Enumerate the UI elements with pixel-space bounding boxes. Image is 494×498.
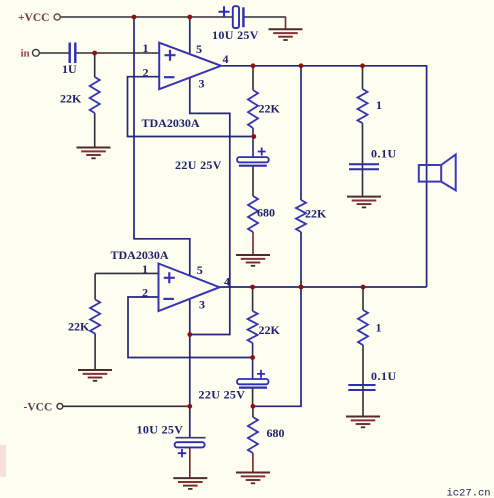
- wire 1 ohm to 0.1U: [362, 123, 364, 196]
- wire 22K R2 to 22U cap: [252, 128, 254, 157]
- wire U1 pin 3 to negative rail: [190, 78, 230, 335]
- wire 22K R7 to ground: [94, 334, 96, 371]
- wire 10U cap to ground: [243, 16, 285, 18]
- capacitor C5 10U 25V bottom: [176, 437, 206, 439]
- svg-text:22K: 22K: [68, 319, 90, 333]
- svg-text:5: 5: [197, 263, 203, 277]
- ground G1 top right: [269, 28, 303, 30]
- svg-text:1: 1: [143, 41, 149, 55]
- node dot out2 fb: [250, 285, 255, 290]
- wire 22K R1 to ground: [94, 113, 96, 148]
- ground G6 below 680 bottom: [236, 472, 270, 474]
- wire U1 output rail to speaker: [221, 66, 427, 287]
- wire +VCC rail: [61, 16, 233, 18]
- ground G4 zobel top: [347, 196, 381, 198]
- terminal -VCC: [57, 403, 63, 409]
- wire zobel1 stub output to 1 ohm: [362, 66, 364, 89]
- svg-text:5: 5: [196, 42, 202, 56]
- wire U2 pin 3 down to 10U cap: [189, 299, 191, 438]
- wire 680 R8 to ground: [252, 453, 254, 473]
- wire 10U bottom cap to ground: [189, 447, 191, 478]
- capacitor C6 0.1U top: [349, 164, 379, 169]
- wire in to 1U cap: [39, 52, 68, 54]
- node dot out1 zobel: [360, 63, 365, 68]
- wire 1 ohm to 0.1U bottom: [362, 345, 364, 417]
- node dot out1 bridge: [299, 63, 304, 68]
- svg-text:ic27.cn: ic27.cn: [447, 488, 491, 498]
- svg-text:22K: 22K: [60, 91, 82, 105]
- node dot cap680 junction bottom: [251, 404, 256, 409]
- svg-text:22K: 22K: [305, 207, 327, 221]
- svg-text:0.1U: 0.1U: [371, 369, 397, 383]
- speaker LS1: [419, 165, 441, 182]
- capacitor C3 22U 25V top: [237, 157, 269, 162]
- wire node to 680 R8: [252, 406, 254, 417]
- svg-text:4: 4: [224, 274, 230, 288]
- ground G7 zobel bottom: [346, 416, 380, 418]
- svg-text:3: 3: [199, 298, 205, 312]
- wire U1 pin 5 stub: [189, 17, 191, 53]
- resistor 1 ohm zobel bottom: [358, 310, 368, 345]
- svg-text:22K: 22K: [259, 102, 281, 116]
- svg-text:TDA2030A: TDA2030A: [111, 248, 169, 262]
- wire 22K R6 to node: [252, 343, 254, 379]
- resistor R6 22K feedback bottom: [248, 311, 258, 343]
- svg-text:1U: 1U: [62, 62, 77, 76]
- wire ground stem top right: [285, 17, 287, 30]
- ground G3 below 680 top: [236, 254, 270, 256]
- svg-text:680: 680: [267, 426, 285, 440]
- node dot input: [92, 51, 97, 56]
- node dot out1 fb: [251, 63, 256, 68]
- resistor R8 680 bottom: [248, 417, 258, 453]
- decorative scan smudge: [0, 445, 6, 477]
- resistor 1 ohm zobel top: [358, 89, 368, 123]
- node dot top rail 1: [132, 15, 137, 20]
- node dot fb junction top: [251, 134, 256, 139]
- svg-text:3: 3: [199, 76, 205, 90]
- node dot fb junction bottom: [250, 355, 255, 360]
- wire 22U cap to 680: [252, 166, 254, 196]
- node dot out2 bridge: [299, 285, 304, 290]
- node dot pin3 junction: [187, 332, 192, 337]
- wire -VCC rail: [63, 405, 190, 407]
- svg-text:in: in: [21, 48, 30, 60]
- node dot top rail 2: [187, 15, 192, 20]
- svg-text:4: 4: [223, 52, 229, 66]
- svg-text:10U 25V: 10U 25V: [137, 422, 184, 436]
- wire bridge 22K from out1: [300, 66, 302, 200]
- node dot out2 zobel: [361, 285, 366, 290]
- svg-text:0.1U: 0.1U: [371, 147, 397, 161]
- wire U1 pin 2 feedback loop: [128, 77, 254, 137]
- svg-text:TDA2030A: TDA2030A: [142, 116, 200, 130]
- svg-text:2: 2: [143, 66, 149, 80]
- svg-text:1: 1: [142, 262, 148, 276]
- wire U2 pin1 to 22K R7: [95, 273, 158, 299]
- terminal in: [33, 49, 40, 56]
- svg-text:22K: 22K: [259, 323, 281, 337]
- wire U2 pin 2 feedback loop: [128, 297, 253, 358]
- ground G2 below R1: [77, 147, 111, 149]
- svg-text:2: 2: [142, 286, 148, 300]
- svg-text:22U 25V: 22U 25V: [175, 158, 222, 172]
- wire bridge 22K to bottom node: [253, 232, 301, 406]
- wire 1U cap to op-amp pin 1: [76, 52, 159, 54]
- capacitor C7 0.1U bottom: [348, 385, 375, 390]
- resistor R1 22K input bias: [90, 77, 100, 113]
- resistor R7 22K bottom bias: [90, 300, 100, 334]
- resistor R5 22K bridge: [296, 200, 306, 232]
- wire U2 output rail: [220, 286, 427, 288]
- ground G8 below 10U bottom: [173, 477, 207, 479]
- resistor R3 680 top: [248, 196, 258, 232]
- svg-text:+VCC: +VCC: [18, 12, 49, 24]
- svg-text:1: 1: [376, 320, 382, 334]
- capacitor C1 1U input: [70, 43, 76, 64]
- svg-text:1: 1: [376, 98, 382, 112]
- wire VCC down to U2 pin 5: [134, 17, 190, 276]
- wire zobel2 stub out2 to 1 ohm: [362, 287, 364, 310]
- op-amp U2 TDA2030A bottom: [159, 264, 220, 312]
- svg-text:10U 25V: 10U 25V: [212, 28, 259, 42]
- node dot -VCC junction: [187, 404, 192, 409]
- ground G5 below R7: [78, 369, 112, 371]
- terminal +VCC: [54, 14, 60, 20]
- wire U1 fb stub output to 22K: [252, 66, 254, 90]
- wire node A down to 22K R1: [94, 53, 96, 77]
- wire 22U bottom cap to node: [252, 388, 254, 407]
- svg-text:680: 680: [257, 205, 275, 219]
- capacitor C2 10U 25V top: [233, 6, 239, 28]
- svg-text:-VCC: -VCC: [24, 402, 53, 414]
- wire 680 to ground: [252, 232, 254, 255]
- capacitor C4 22U 25V bottom: [237, 379, 269, 384]
- op-amp U1 TDA2030A top: [159, 43, 221, 89]
- svg-text:22U 25V: 22U 25V: [199, 387, 246, 401]
- resistor R2 22K feedback top: [248, 90, 258, 128]
- wire out2 to 22K R6: [252, 287, 254, 311]
